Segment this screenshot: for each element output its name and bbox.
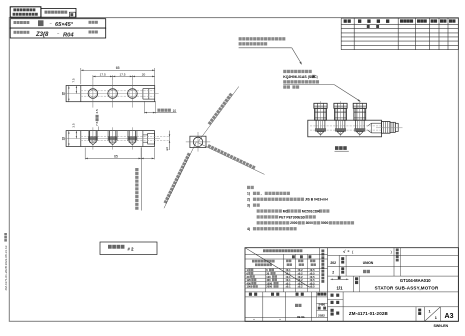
svg-text:65×45°: 65×45°	[55, 22, 74, 28]
title block vertical kanji column	[321, 250, 324, 253]
svg-text:JIS B 0419-mH: JIS B 0419-mH	[305, 198, 329, 202]
svg-text:1: 1	[429, 310, 431, 314]
top view holes	[88, 89, 98, 99]
note 1 leader arrow	[292, 48, 302, 64]
svg-text:7.5: 7.5	[72, 78, 76, 83]
svg-text:17.5: 17.5	[119, 73, 125, 77]
svg-text:φ6: φ6	[165, 147, 169, 151]
title block outline	[245, 248, 458, 322]
left margin vertical code	[4, 245, 8, 290]
svg-text:10: 10	[173, 109, 177, 113]
front view bore hidden lines	[81, 136, 170, 138]
svg-text:MC501CDR: MC501CDR	[302, 209, 320, 213]
svg-text:2000: 2000	[290, 221, 298, 225]
svg-text:SWN-EN: SWN-EN	[434, 324, 449, 328]
assembly bore hidden lines	[310, 125, 382, 127]
svg-text:4): 4)	[247, 227, 250, 231]
approval section	[245, 296, 328, 298]
svg-text:STATOR SUB-ASSY,MOTOR: STATOR SUB-ASSY,MOTOR	[375, 286, 439, 291]
svg-text:PET PET300ESD: PET PET300ESD	[279, 215, 306, 219]
front view note vertical line	[140, 147, 142, 210]
assembly right fitting	[382, 122, 391, 134]
svg-text:2: 2	[332, 271, 334, 275]
revision table	[341, 17, 458, 19]
svg-text:2000: 2000	[266, 285, 272, 289]
svg-text:2): 2)	[247, 198, 250, 202]
svg-text:,: ,	[261, 192, 262, 196]
stamp header box 2	[41, 8, 76, 17]
svg-text:Z3(8: Z3(8	[35, 32, 49, 38]
serial number box	[100, 242, 157, 255]
top view centerline	[62, 93, 159, 95]
svg-text:65: 65	[114, 154, 118, 158]
svg-text:A3: A3	[445, 313, 454, 320]
svg-text:±0.1: ±0.1	[286, 285, 292, 289]
svg-text:# 2: # 2	[128, 247, 135, 252]
dim 15 left	[68, 86, 70, 102]
svg-text:±0.2: ±0.2	[298, 285, 304, 289]
general notes	[247, 186, 250, 189]
svg-text:1): 1)	[247, 192, 250, 196]
dim 13 left front	[68, 131, 70, 147]
svg-text:2022: 2022	[318, 314, 325, 318]
svg-text:13: 13	[62, 137, 66, 141]
dim 17.5/17.5/20	[92, 75, 94, 80]
front view centerline	[62, 138, 160, 140]
top view hidden bore lines	[81, 90, 155, 92]
assembly bar	[308, 120, 382, 137]
dim 7.5 ticks	[75, 86, 77, 94]
svg-text:15: 15	[62, 92, 66, 96]
top view bar	[66, 86, 155, 102]
front view bar	[66, 131, 154, 147]
svg-text:7.5: 7.5	[95, 121, 99, 126]
note 2 text	[283, 70, 286, 73]
dim 3.5 ticks front	[75, 131, 77, 139]
note 1 text	[239, 37, 242, 40]
assembly right thread cone	[372, 122, 382, 124]
assembly fittings	[314, 103, 327, 108]
svg-text:UNION: UNION	[363, 261, 374, 265]
sheet cell diagonal	[425, 307, 441, 322]
dim phi6 right front	[169, 131, 171, 150]
svg-text:=: =	[348, 250, 350, 254]
stamp row 1	[10, 19, 106, 28]
svg-text:±0.5: ±0.5	[310, 285, 316, 289]
front view right counterbore	[148, 133, 155, 144]
stamp header box 1	[10, 7, 41, 17]
tolerance table diagonal	[245, 248, 310, 287]
depth note vertical 7.5fukasa	[95, 109, 99, 126]
svg-text:65: 65	[116, 66, 120, 70]
title bottom rows	[328, 306, 459, 308]
stamp row 2	[10, 28, 106, 38]
svg-text:GT104-MAA010: GT104-MAA010	[400, 278, 431, 283]
title right section	[328, 254, 459, 256]
svg-text:3.5: 3.5	[95, 109, 99, 114]
svg-text:3): 3)	[247, 203, 250, 207]
front view tap holes	[89, 131, 91, 143]
side view square	[190, 136, 206, 147]
svg-text:ZM-4171-01-202B 2022-08-31 A3: ZM-4171-01-202B 2022-08-31 A3	[4, 245, 8, 290]
svg-text:R04: R04	[63, 32, 74, 38]
svg-text:1000: 1000	[247, 285, 253, 289]
leader down-right	[198, 143, 265, 175]
svg-text:): )	[317, 75, 318, 79]
svg-text:1/1: 1/1	[336, 285, 343, 290]
assembly label	[335, 146, 339, 150]
dim 65 bottom front	[84, 148, 86, 160]
svg-text:17.5: 17.5	[100, 73, 106, 77]
note 2 leader arrow	[334, 85, 360, 101]
svg-text:202: 202	[330, 261, 336, 265]
svg-text:5480: 5480	[318, 302, 325, 306]
svg-text:20: 20	[142, 73, 146, 77]
dim undercut right	[143, 101, 145, 113]
tolerance table	[245, 253, 328, 255]
leader up-right	[199, 87, 239, 142]
svg-text:3.5: 3.5	[72, 123, 76, 128]
top view right counterbore feature	[143, 88, 155, 90]
svg-text:ZM-4171-01-202B: ZM-4171-01-202B	[349, 311, 389, 316]
svg-text:3000: 3000	[306, 221, 314, 225]
svg-text:1: 1	[435, 316, 437, 320]
svg-text:09-51: 09-51	[297, 315, 305, 319]
svg-text:5000: 5000	[321, 221, 329, 225]
leader down-left	[164, 142, 197, 209]
dim 65 top	[80, 68, 82, 84]
